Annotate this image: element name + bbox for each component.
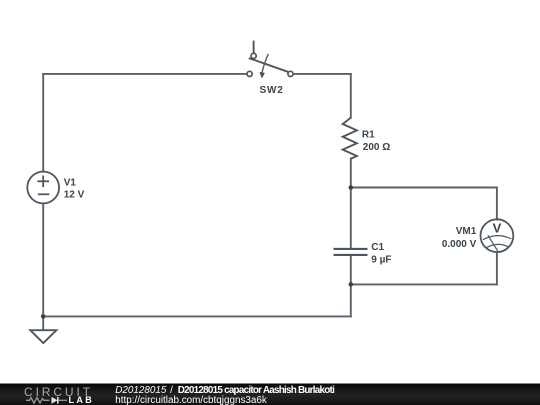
node A junction <box>349 185 354 190</box>
node B junction <box>349 282 354 287</box>
wire node A to C1 <box>350 188 352 249</box>
wire node B to bottom rail <box>350 284 352 316</box>
capacitor C1 <box>334 249 368 255</box>
wire VM1 right vertical bottom <box>496 252 498 284</box>
svg-text:V1: V1 <box>64 178 77 189</box>
svg-text:SW2: SW2 <box>260 85 284 96</box>
svg-text:R1: R1 <box>362 129 375 140</box>
svg-text:C1: C1 <box>371 242 384 253</box>
svg-text:9 µF: 9 µF <box>371 254 391 265</box>
switch SW2 <box>247 41 293 79</box>
wire right vertical above R1 <box>350 74 352 118</box>
svg-text:VM1: VM1 <box>456 226 477 237</box>
node C junction <box>41 314 46 319</box>
wire top horizontal left <box>43 73 247 75</box>
svg-text:http://circuitlab.com/cbtqjggn: http://circuitlab.com/cbtqjggns3a6k <box>115 395 267 405</box>
resistor R1 <box>343 118 357 159</box>
wire ground stub <box>42 316 44 330</box>
wire C1 to node B <box>350 255 352 285</box>
svg-text:0.000 V: 0.000 V <box>442 239 477 250</box>
wire top horizontal right <box>293 73 351 75</box>
wire V1 bottom vertical <box>42 204 44 317</box>
wire VM1 top horizontal <box>351 187 497 189</box>
CircuitLab logo <box>24 385 94 405</box>
svg-text:V: V <box>493 221 502 236</box>
wire bottom rail <box>43 315 351 317</box>
wire V1 top vertical <box>42 74 44 172</box>
svg-text:200 Ω: 200 Ω <box>363 142 390 153</box>
wire VM1 bottom horizontal <box>351 283 497 285</box>
voltage source V1 <box>27 172 59 204</box>
wire VM1 right vertical top <box>496 188 498 220</box>
footer bar <box>0 384 540 405</box>
footer text <box>115 385 335 405</box>
ground <box>30 330 56 343</box>
svg-text:LAB: LAB <box>69 395 95 405</box>
wire R1 to node A <box>350 158 352 187</box>
svg-text:12 V: 12 V <box>64 190 85 201</box>
voltmeter VM1 <box>481 219 514 252</box>
